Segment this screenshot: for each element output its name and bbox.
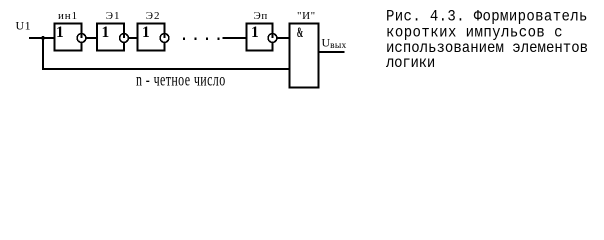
inversion bubble of Э2 (160, 34, 169, 43)
ellipsis dots continuation (183, 38, 185, 40)
svg-text:коротких импульсов с: коротких импульсов с (386, 25, 563, 42)
inversion bubble of Э1 (120, 34, 129, 43)
svg-text:логики: логики (386, 56, 435, 73)
svg-text:n - четное число: n - четное число (136, 70, 226, 90)
svg-text:Uвых: Uвых (322, 36, 347, 52)
inversion bubble of ин1 (77, 34, 86, 43)
svg-text:"И": "И" (297, 10, 316, 22)
svg-text:U1: U1 (16, 19, 32, 33)
inversion bubble of Эп (268, 34, 277, 43)
wire Эп to AND gate (277, 37, 290, 39)
wire Э1 to Э2 (128, 37, 137, 39)
svg-text:Э2: Э2 (146, 10, 161, 22)
svg-text:Э1: Э1 (106, 10, 121, 22)
wire dots to Эп (223, 37, 247, 39)
wire output Uвых (319, 51, 345, 53)
AND gate И box (290, 24, 319, 88)
svg-text:ин1: ин1 (58, 10, 78, 22)
wire ин1 to Э1 (86, 37, 97, 39)
wire stub through bubble of ин1 (81, 33, 83, 38)
wire stub through bubble of Эп (272, 33, 274, 38)
svg-text:1: 1 (251, 24, 259, 41)
svg-text:Рис. 4.3. Формирователь: Рис. 4.3. Формирователь (386, 9, 588, 26)
inverter Э2 box (138, 24, 165, 51)
wire stub through bubble of Э2 (164, 33, 166, 38)
wire stub through bubble of Э1 (123, 33, 125, 38)
inverter ин1 box (55, 24, 82, 51)
svg-text:Эп: Эп (254, 10, 268, 22)
svg-text:1: 1 (142, 24, 150, 41)
node junction dot (41, 36, 45, 40)
wire input from U1 (29, 37, 56, 39)
svg-text:1: 1 (102, 24, 110, 41)
svg-text:&: & (297, 25, 304, 41)
inverter Эп box (247, 24, 273, 51)
wire feedback vertical (42, 38, 44, 70)
wire feedback bottom horizontal (42, 68, 290, 70)
svg-text:1: 1 (56, 24, 64, 41)
inverter Э1 box (97, 24, 124, 51)
